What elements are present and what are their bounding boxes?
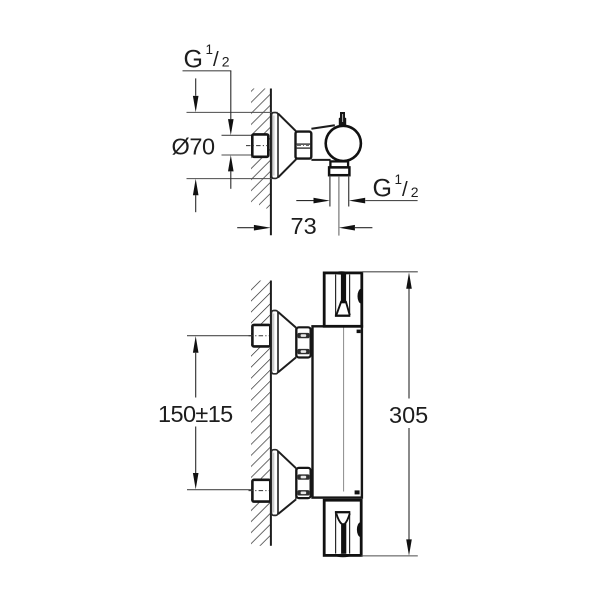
svg-text:/: / <box>402 178 408 201</box>
body bottom-right tick <box>355 490 360 494</box>
G1/2 label underline <box>183 70 232 72</box>
union plate bottom (bottom view) <box>271 450 278 516</box>
G1/2 right left-arrow tail <box>296 200 313 202</box>
svg-text:1: 1 <box>206 42 214 57</box>
svg-text:Ø70: Ø70 <box>172 133 216 159</box>
union cone bottom: front rim <box>295 468 297 499</box>
svg-text:150±15: 150±15 <box>158 401 233 427</box>
dia70 lower arrow tail <box>195 195 197 212</box>
body highlight line <box>343 328 345 492</box>
top cap slot bottom bar <box>335 315 350 317</box>
hex nut side view (top view) <box>296 132 312 159</box>
in-wall square union top (bottom view) <box>252 325 270 347</box>
nut bottom: facet band 2 <box>298 490 310 495</box>
square-bottom arrow (up) <box>228 155 234 171</box>
G1/2 right arrowhead pointing left <box>349 198 365 204</box>
svg-text:G: G <box>373 174 392 202</box>
150±15 dimension line upper segment <box>195 353 197 398</box>
body top-right tick <box>357 330 361 334</box>
extension line 150 bottom <box>187 489 252 491</box>
nut facet lines <box>297 143 311 145</box>
connecting body upper edge <box>311 125 334 129</box>
top cap funnel left <box>336 301 341 315</box>
G1/2 right underline / tail <box>365 200 417 202</box>
73 dimension left tail <box>237 227 254 229</box>
union cone top: lower edge <box>278 357 296 372</box>
305 extension line bottom <box>361 555 418 557</box>
dia70 dimension upper arrow tail <box>195 78 197 95</box>
305 arrowhead up <box>406 272 412 288</box>
wall (bottom view) hatched section <box>251 281 271 546</box>
outlet pipe left line <box>329 176 331 207</box>
thermostat knob stem highlight <box>342 114 344 122</box>
shower outlet collar lower <box>329 167 349 175</box>
wall face line (top view) <box>270 89 272 236</box>
extension line lower (escutcheon bottom, y=178.6) <box>187 178 274 180</box>
extension line 150 top <box>187 335 252 337</box>
nut top: facet band 2 <box>298 349 310 354</box>
bottom cap Y-curve left <box>336 514 341 524</box>
in-wall square union bottom (bottom view) <box>252 480 270 502</box>
150±15 dimension line lower segment <box>195 427 197 474</box>
305 dimension line lower segment <box>408 428 410 540</box>
150±15 arrowhead up <box>193 336 199 353</box>
top cap slot right line <box>349 275 351 316</box>
G1/2 leader line <box>230 71 232 119</box>
svg-text:/: / <box>213 48 219 71</box>
bottom cap (bottom view) <box>324 500 361 555</box>
top cap side crescent <box>358 289 362 304</box>
extension line square top <box>222 134 253 136</box>
top cap funnel right <box>346 301 350 315</box>
dia70 lower arrowhead (up) <box>193 179 199 195</box>
svg-text:2: 2 <box>411 184 419 200</box>
150±15 arrowhead down <box>193 473 199 489</box>
bottom cap Y-curve right <box>345 514 350 524</box>
connecting body lower edge <box>311 159 330 161</box>
G1/2 right arrowhead pointing right <box>314 198 330 204</box>
dimension G1/2 (right) label <box>373 172 419 203</box>
bottom cap side crescent <box>357 522 361 537</box>
bottom cap slot left line <box>335 512 337 553</box>
hex nut front top (bottom view) <box>296 327 310 357</box>
G1/2 leader arrowhead (down) <box>228 119 234 135</box>
svg-text:1: 1 <box>395 172 403 187</box>
mixer body (bottom view) <box>313 326 362 497</box>
bottom cap center bar <box>341 523 346 554</box>
305 dimension line upper segment <box>408 288 410 398</box>
dimension G1/2 (top-left) label <box>184 42 230 74</box>
union cone top: upper edge <box>278 312 296 328</box>
in-wall square union (top view) <box>252 134 268 156</box>
extension line square bottom <box>222 154 253 156</box>
union cone bottom: upper edge <box>278 451 296 468</box>
bottom cap slot right line <box>349 512 351 553</box>
extension line upper (escutcheon top, y=112.4) <box>187 111 278 113</box>
305 arrowhead down <box>406 539 412 555</box>
escutcheon plate (top view) <box>272 113 278 179</box>
top cap center bar <box>341 274 346 304</box>
wall face line (bottom view) <box>270 281 272 546</box>
305 extension line top <box>362 271 418 273</box>
73 arrowhead pointing right at wall <box>254 225 271 231</box>
thermostat knob stem <box>339 112 346 126</box>
nut top: facet band 1 <box>298 333 310 338</box>
shower outlet collar upper <box>330 161 348 167</box>
svg-text:G: G <box>184 45 203 73</box>
bottom cap slot top bar <box>335 511 350 513</box>
nut centerline dash <box>297 145 309 147</box>
escutcheon cone upper edge <box>278 113 296 131</box>
centerline square top <box>249 335 270 337</box>
union plate top (bottom view) <box>271 311 278 374</box>
union cone bottom: lower edge <box>278 499 296 514</box>
73 arrowhead pointing left at pipe axis <box>339 225 355 231</box>
hex nut front bottom (bottom view) <box>296 468 310 498</box>
centerline of square union <box>246 145 268 147</box>
svg-text:73: 73 <box>291 213 317 239</box>
escutcheon cone lower edge <box>278 159 296 177</box>
top cap slot left line <box>335 275 337 316</box>
svg-text:2: 2 <box>222 54 230 70</box>
centerline square bottom <box>249 490 270 492</box>
bottom cap bottom edge bump <box>336 554 351 558</box>
73 right tail <box>355 227 373 229</box>
nut bottom: facet band 1 <box>298 474 310 479</box>
wall (top view) hatched section <box>251 89 271 209</box>
union plate bottom highlight <box>273 453 275 513</box>
escutcheon plate highlight line <box>273 116 275 176</box>
square-bottom arrow tail <box>230 171 232 189</box>
top cap (bottom view) <box>324 273 362 326</box>
svg-text:305: 305 <box>389 402 428 428</box>
outlet pipe centerline <box>338 176 340 236</box>
outlet pipe right line <box>348 176 350 207</box>
union plate top highlight <box>273 314 275 372</box>
thermostat valve body circle <box>326 126 361 161</box>
dia70 upper arrowhead (down) <box>193 96 199 112</box>
union cone top: front rim <box>295 328 297 358</box>
top cap top edge bump <box>335 271 349 274</box>
